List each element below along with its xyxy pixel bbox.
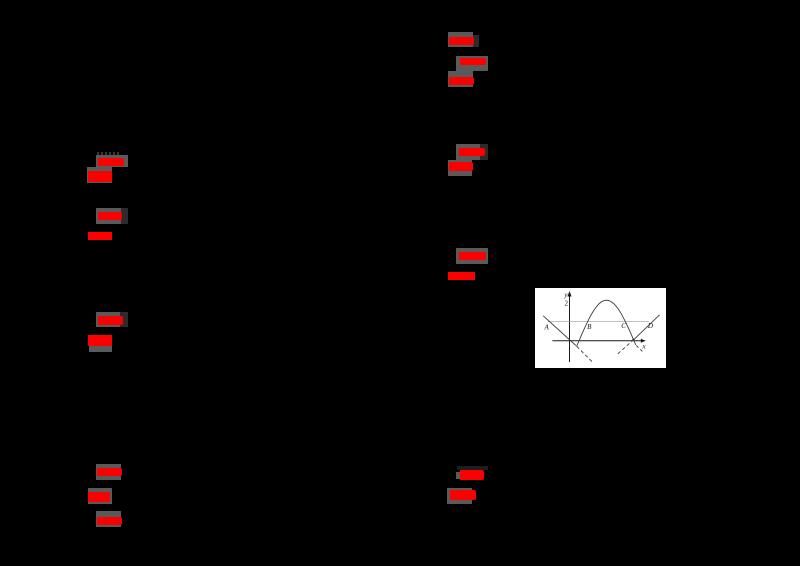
L3b red bar [88, 335, 112, 346]
L3a red bar [98, 316, 123, 325]
L3a dark field [120, 312, 128, 327]
R6 red bar [459, 252, 486, 260]
L1b red bar [88, 171, 112, 182]
L2b red bar [88, 232, 112, 240]
R8 red bar [460, 470, 484, 480]
right line dashed [618, 340, 633, 353]
svg-text:B: B [587, 323, 592, 331]
L4c red bar [97, 517, 122, 525]
svg-text:A: A [543, 324, 549, 332]
L4c gray field [96, 511, 121, 527]
svg-text:x: x [642, 343, 647, 351]
y-axis [569, 294, 571, 362]
right line solid [634, 315, 659, 340]
R3 red bar [449, 77, 474, 85]
R8 gray nub [456, 472, 460, 479]
L3b gray strip [89, 346, 112, 352]
L4b red bar [88, 492, 110, 502]
L4a red bar [97, 468, 122, 476]
svg-text:y: y [563, 291, 568, 299]
L1 faint dots [97, 152, 120, 155]
R1 gray field [448, 32, 473, 47]
L1a gray field [96, 155, 128, 167]
L1a red bar [98, 158, 124, 166]
R9 red bar [450, 490, 476, 500]
sine hump [577, 300, 636, 346]
L2a gray field [96, 208, 121, 224]
line y=1 [548, 321, 649, 323]
R4 red bar [459, 148, 485, 156]
R4 dark field [480, 144, 488, 160]
svg-text:C: C [621, 322, 626, 330]
R5 gray field [448, 160, 472, 176]
svg-text:2: 2 [565, 300, 569, 308]
R4 gray field [456, 144, 480, 160]
R2 red bar [460, 58, 486, 65]
R1 red bar [449, 37, 474, 45]
left line dashed [577, 346, 593, 362]
left line solid [543, 316, 576, 346]
L4a gray field [96, 464, 121, 480]
R7 red bar [448, 272, 475, 280]
L1b gray field [87, 167, 112, 183]
R2 gray field [456, 56, 488, 71]
figure box [535, 288, 666, 368]
hump dashed tail [636, 346, 642, 352]
L4b gray field [88, 488, 112, 504]
R6 gray field [456, 248, 488, 264]
x-axis [552, 340, 642, 342]
R5 red bar [449, 162, 473, 171]
R8 faint strip [457, 466, 488, 470]
L3a gray field [96, 312, 120, 327]
L2a red bar [98, 212, 122, 220]
R9 gray field [447, 488, 472, 504]
R1 dark nub [473, 35, 479, 47]
svg-text:D: D [647, 322, 653, 330]
junction dot [632, 339, 634, 341]
R3 gray field [448, 71, 473, 87]
L2a dark field [121, 208, 128, 224]
